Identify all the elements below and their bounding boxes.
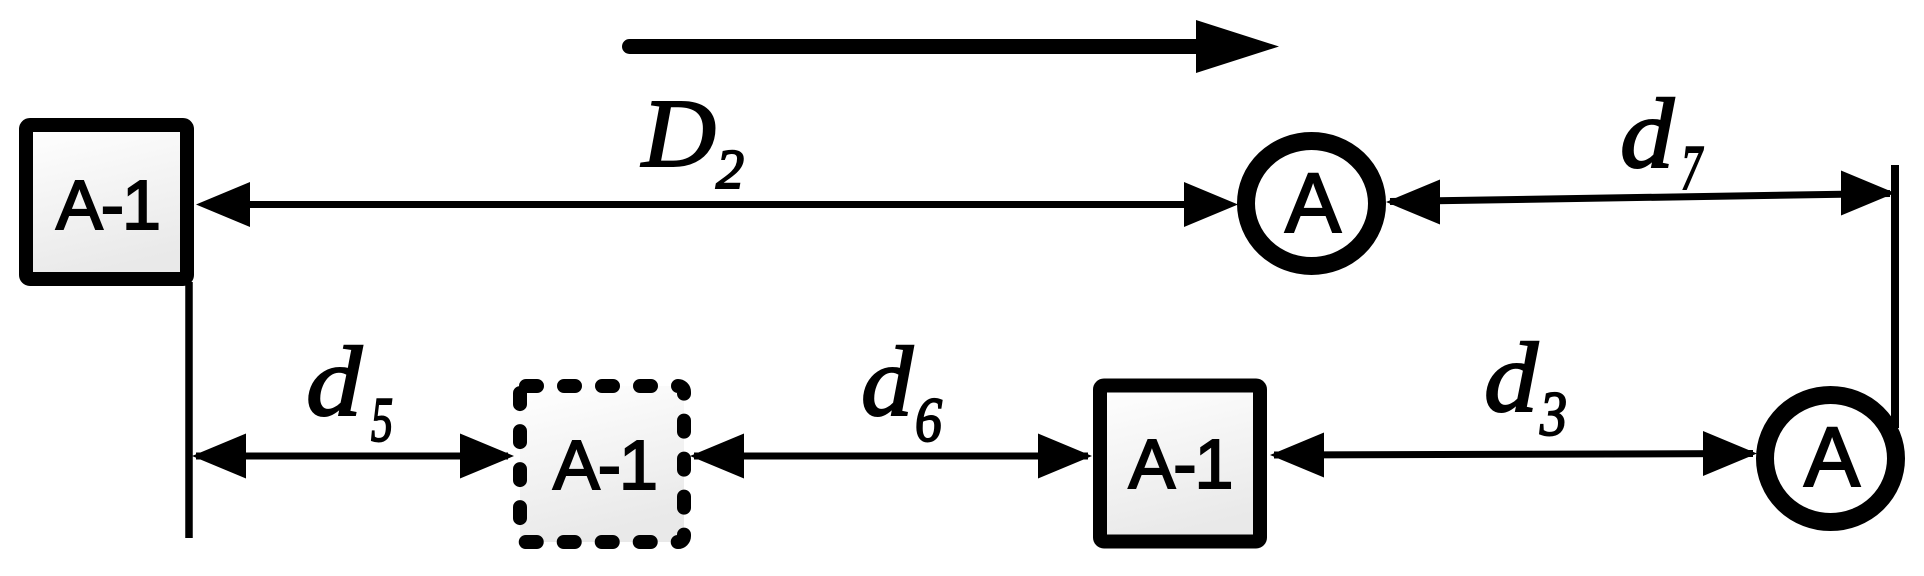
label D2: [640, 80, 744, 201]
wire right vertical: [1891, 165, 1899, 428]
svg-text:A-1: A-1: [1129, 425, 1232, 503]
dimension arrow d3: [1270, 431, 1757, 478]
svg-text:d: d: [306, 326, 363, 437]
svg-text:D: D: [640, 80, 716, 188]
svg-text:A-1: A-1: [553, 426, 656, 504]
svg-text:d: d: [1620, 78, 1675, 189]
label d7: [1620, 78, 1704, 203]
dimension arrow D2: [196, 182, 1238, 227]
label d3: [1484, 322, 1567, 449]
svg-text:3: 3: [1539, 379, 1567, 449]
svg-text:5: 5: [371, 385, 393, 455]
node A top: [1246, 141, 1377, 266]
dimension arrow d7: [1386, 171, 1895, 225]
svg-text:6: 6: [915, 385, 942, 455]
dimension arrow d5: [192, 434, 514, 479]
box A-1 dashed: [520, 386, 684, 542]
svg-text:7: 7: [1681, 133, 1704, 203]
svg-text:d: d: [861, 326, 914, 437]
node A bottom right: [1765, 395, 1896, 522]
svg-text:A: A: [1285, 156, 1341, 250]
box A-1 bottom: [1100, 386, 1260, 542]
direction arrow (top): [630, 20, 1280, 73]
label d6: [861, 326, 942, 455]
dimension arrow d6: [690, 434, 1092, 479]
box A-1 left: [26, 125, 187, 279]
wire left vertical: [185, 282, 193, 538]
svg-text:2: 2: [716, 139, 744, 201]
label d5: [306, 326, 393, 455]
svg-text:A-1: A-1: [56, 166, 159, 244]
svg-text:d: d: [1484, 322, 1539, 433]
svg-text:A: A: [1804, 410, 1860, 504]
